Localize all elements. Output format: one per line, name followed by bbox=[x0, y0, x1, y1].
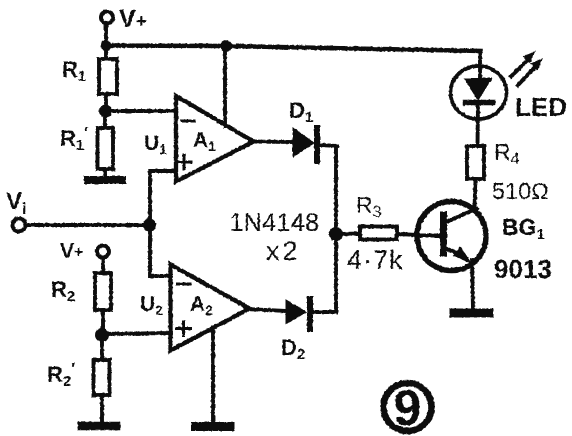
terminal V+ (top) bbox=[101, 5, 147, 33]
resistor R1 bbox=[62, 46, 117, 112]
wire Vi node down to A2 inverting input bbox=[150, 225, 171, 276]
node junction R2/R2' bbox=[96, 329, 109, 342]
op-amp U1 A1 bbox=[144, 96, 254, 182]
resistor R1' bbox=[60, 111, 113, 177]
wire Vi to junction bbox=[26, 223, 150, 227]
wire junction to A2 non-inverting input bbox=[102, 333, 171, 334]
terminal V+ (lower) bbox=[60, 240, 109, 263]
LED light arrow 2 bbox=[518, 59, 542, 85]
wire A1 non-inverting input down to Vi node bbox=[150, 171, 176, 225]
svg-text:9013: 9013 bbox=[494, 254, 552, 284]
resistor R2' bbox=[47, 335, 110, 423]
wire transistor collector up to R4 bbox=[475, 179, 476, 209]
svg-text:R2′: R2′ bbox=[47, 361, 75, 390]
wire A2 ground pin bbox=[211, 327, 215, 423]
wire right bus D1 to D2 bbox=[334, 146, 338, 312]
LED bbox=[451, 66, 568, 122]
figure number 9 bbox=[384, 380, 432, 436]
node junction at V+ rail left bbox=[101, 41, 111, 51]
wire rail down to op-amp A1 power bbox=[223, 46, 227, 126]
ground (R1') bbox=[88, 176, 122, 184]
wire A1 output to D1 bbox=[250, 140, 293, 144]
wire junction to A1 inverting input bbox=[105, 109, 176, 113]
terminal Vi bbox=[6, 188, 26, 232]
ground (R2') bbox=[82, 422, 116, 431]
wire rail down to LED bbox=[478, 51, 482, 79]
resistor R2 bbox=[51, 258, 111, 336]
wire A2 output to D2 bbox=[246, 309, 286, 311]
op-amp U2 A2 bbox=[140, 265, 250, 351]
node junction R3 bbox=[330, 228, 343, 241]
ground (transistor emitter) bbox=[454, 309, 489, 318]
ground (A2) bbox=[196, 422, 231, 431]
diode D2 bbox=[281, 299, 336, 363]
svg-text:x2: x2 bbox=[266, 236, 298, 266]
svg-text:1N4148: 1N4148 bbox=[230, 209, 320, 237]
wire V+ terminal down to top rail bbox=[104, 24, 108, 46]
node junction on rail above A1 bbox=[221, 41, 232, 52]
node junction Vi bbox=[144, 219, 156, 231]
resistor R4 bbox=[467, 103, 549, 204]
svg-text:4·7k: 4·7k bbox=[347, 245, 404, 275]
svg-text:V+: V+ bbox=[60, 240, 83, 263]
svg-text:510Ω: 510Ω bbox=[492, 178, 549, 204]
LED light arrow 1 bbox=[511, 52, 535, 77]
diode D1 bbox=[289, 98, 337, 161]
transistor Q1 BG1 bbox=[417, 202, 552, 309]
svg-text:9: 9 bbox=[394, 380, 422, 436]
wire top V+ rail bbox=[106, 46, 481, 52]
node junction R1/R1' bbox=[100, 105, 112, 117]
label 1N4148 x2 bbox=[230, 209, 320, 266]
svg-text:R1′: R1′ bbox=[60, 125, 88, 154]
resistor R3 bbox=[342, 192, 417, 275]
svg-text:LED: LED bbox=[515, 92, 567, 122]
